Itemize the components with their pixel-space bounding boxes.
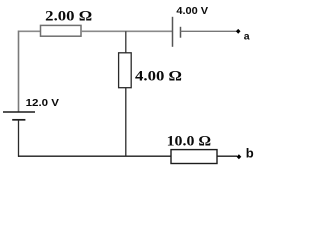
wire to terminal b xyxy=(217,155,237,157)
svg-text:10.0 Ω: 10.0 Ω xyxy=(167,134,212,150)
resistor 10.0 ohm xyxy=(171,150,217,164)
svg-text:4.00 Ω: 4.00 Ω xyxy=(135,69,182,85)
svg-text:a: a xyxy=(244,30,250,42)
svg-text:12.0 V: 12.0 V xyxy=(26,97,59,109)
battery 4.00 V long plate xyxy=(172,17,174,47)
node b terminal dot xyxy=(237,154,242,159)
node a terminal dot xyxy=(236,29,241,34)
wire middle vertical upper xyxy=(125,31,127,53)
wire to terminal a xyxy=(181,30,238,32)
wire bottom horizontal xyxy=(18,155,171,157)
wire middle vertical lower xyxy=(125,88,127,157)
wire top middle horizontal xyxy=(81,30,173,32)
resistor 2.00 ohm xyxy=(41,25,82,36)
battery 12.0 V short plate xyxy=(12,119,25,121)
wire top-left horizontal xyxy=(19,30,41,32)
resistor 4.00 ohm xyxy=(119,53,132,88)
battery 4.00 V short plate xyxy=(180,27,182,38)
svg-text:2.00 Ω: 2.00 Ω xyxy=(45,9,92,25)
svg-text:4.00 V: 4.00 V xyxy=(176,5,208,17)
svg-text:b: b xyxy=(246,146,254,161)
battery 12.0 V long plate xyxy=(3,111,35,113)
wire left vertical lower xyxy=(18,120,20,157)
wire left vertical upper xyxy=(18,31,20,113)
